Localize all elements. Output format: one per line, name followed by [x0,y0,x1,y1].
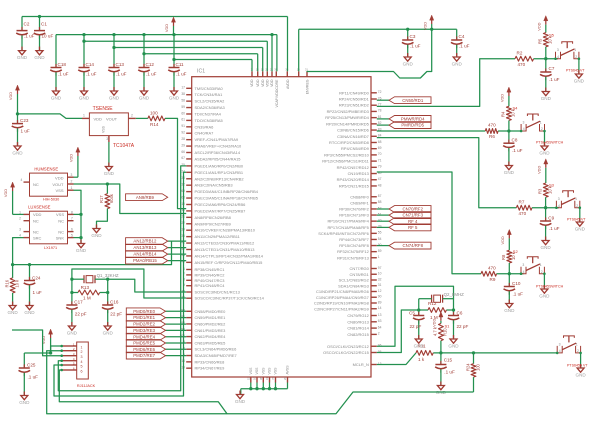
svg-text:PTS645 VT: PTS645 VT [566,69,585,73]
ground S1 [575,364,586,377]
svg-text:VDD: VDD [55,175,64,180]
svg-text:.1 uF: .1 uF [410,44,421,49]
svg-text:RP10/CN17/PMA9/RF4: RP10/CN17/PMA9/RF4 [327,219,369,224]
svg-text:1: 1 [81,345,83,349]
node CN74/RF8 [389,242,431,249]
svg-text:84: 84 [378,134,382,138]
wire Q1 to RC13 [108,279,187,292]
svg-text:10 uF: 10 uF [42,34,54,39]
wire RF4 tag [377,220,389,222]
svg-text:96: 96 [378,344,382,348]
svg-text:91: 91 [181,124,185,128]
ground S3 [575,218,586,231]
svg-text:.1 uF: .1 uF [549,226,560,231]
resistor R11 [416,343,433,362]
capacitor C13 [108,35,126,91]
svg-text:68: 68 [378,140,382,144]
svg-text:7: 7 [71,217,73,221]
svg-text:PMD1/RE1: PMD1/RE1 [133,315,155,320]
svg-text:NC: NC [58,219,64,224]
svg-text:1: 1 [574,48,576,52]
svg-text:90: 90 [378,243,382,247]
svg-text:GND: GND [51,95,62,100]
svg-text:C13: C13 [116,62,125,67]
svg-text:AN12/RB12: AN12/RB12 [133,239,157,244]
power VDD arrow top-left [164,17,176,35]
wire Q1 left net [70,278,73,305]
svg-text:GND: GND [34,55,45,60]
svg-text:4: 4 [558,204,560,208]
svg-text:R14: R14 [150,122,159,127]
svg-text:90: 90 [378,295,382,299]
ground VSS [235,391,246,404]
switch S3 [555,191,586,222]
svg-text:VSS: VSS [262,367,266,375]
svg-text:3: 3 [522,263,524,267]
wire PMD0 tag stub [166,310,187,312]
svg-text:VSS: VSS [249,367,253,375]
node CN71/RF3 [389,212,431,219]
node RF4 [389,218,431,225]
svg-text:GND: GND [109,95,120,100]
wire AVDD rail [299,28,457,72]
svg-text:VDD: VDD [500,94,505,102]
wire VDD to TSENSE [16,112,82,123]
resistor R3 [538,183,555,198]
node PMA0/RB15 [126,257,168,264]
wire LUXSENSE SRC net [11,238,172,267]
svg-text:CN63/PMD5/RE5: CN63/PMD5/RE5 [195,340,227,345]
svg-text:CN71/RF3: CN71/RF3 [402,213,423,218]
svg-text:CN61/PMD3/RE3: CN61/PMD3/RE3 [195,328,227,333]
svg-text:LX1971: LX1971 [44,246,57,250]
svg-text:CN78/RG1: CN78/RG1 [350,272,369,277]
svg-text:CN80/RG13: CN80/RG13 [347,319,369,324]
svg-text:100: 100 [475,363,480,371]
svg-text:R13: R13 [81,285,90,290]
wire VDD fan D [142,52,257,71]
svg-text:VDD: VDD [69,154,74,162]
wire RJ11 pin3 net [12,330,62,356]
svg-text:GND: GND [12,150,23,155]
svg-text:Q1_32KHZ: Q1_32KHZ [97,273,119,278]
svg-text:PTS645 VT: PTS645 VT [567,218,586,222]
power VDD arrow S5 [536,16,548,33]
svg-text:VSS: VSS [55,188,63,193]
svg-text:2: 2 [131,114,133,118]
svg-text:2: 2 [541,270,543,274]
svg-text:6: 6 [71,228,73,232]
svg-text:R4: R4 [501,111,506,117]
svg-text:GND: GND [139,95,150,100]
svg-text:.1 uF: .1 uF [444,369,455,374]
svg-text:AN14/RB14: AN14/RB14 [133,252,157,257]
svg-text:CN82/RG15: CN82/RG15 [347,332,369,337]
svg-text:GND: GND [169,95,180,100]
capacitor C16 [102,300,122,327]
wire PMD3 tag stub [166,329,187,331]
ground C7 [541,88,552,101]
wire AN15 tag stub [168,260,187,262]
capacitor C14 [78,35,96,91]
IC1 top power pins [250,67,309,107]
wire VDD to LUXSENSE [13,213,24,215]
svg-text:C1: C1 [41,22,47,27]
svg-text:RP3/CN55/PMCS2/RD10: RP3/CN55/PMCS2/RD10 [324,152,369,157]
svg-text:GND: GND [541,96,552,101]
switch S2 [520,257,564,289]
svg-text:AN14/CTPLS/RP14/CN32/PMA1/RB14: AN14/CTPLS/RP14/CN32/PMA1/RB14 [195,253,264,258]
svg-text:58: 58 [181,98,185,102]
svg-text:GND: GND [79,95,90,100]
svg-text:SDA1/CN84/RG3: SDA1/CN84/RG3 [338,283,369,288]
wire RD1 tag [377,99,389,101]
svg-text:VSS: VSS [255,367,259,375]
temperature sensor TSENSE TC1047A [82,106,136,149]
ground C15 [436,382,447,395]
svg-text:470: 470 [488,123,496,128]
node CN70/RF2 [389,206,431,213]
ground C12 [139,87,150,100]
ground C5 [414,335,425,348]
svg-text:89: 89 [378,300,382,304]
svg-text:VSS: VSS [56,212,64,217]
svg-text:TDO/CN38/RA5: TDO/CN38/RA5 [195,118,224,123]
svg-text:PMD6/RE6: PMD6/RE6 [133,347,155,352]
wire RF8 tag [377,245,389,247]
svg-text:TMS/CN33/RA0: TMS/CN33/RA0 [195,86,224,91]
svg-text:C1INC/RP26/PMA4/CN9/RG7: C1INC/RP26/PMA4/CN9/RG7 [316,295,369,300]
svg-text:PMD7/RE7: PMD7/RE7 [133,353,155,358]
wire VDD to HUMSENSE [74,176,78,178]
svg-text:C8: C8 [512,138,518,143]
svg-text:AN15/REF O/RP29/CN12/PMA0/RB15: AN15/REF O/RP29/CN12/PMA0/RB15 [195,260,264,265]
ground S4 [539,142,550,155]
ground C16 [103,322,114,335]
svg-text:100: 100 [150,110,158,115]
capacitor C11 [168,35,186,91]
svg-text:71: 71 [378,158,382,162]
svg-text:PMA6/VREF+/CN42/RA10: PMA6/VREF+/CN42/RA10 [195,144,243,149]
ground C1 [34,47,45,60]
svg-text:RP33/CN66/RE8: RP33/CN66/RE8 [195,359,226,364]
resistor R9 [481,265,497,282]
svg-text:NC: NC [33,219,39,224]
svg-text:RP20/CN14/PMRD/RD5: RP20/CN14/PMRD/RD5 [326,121,369,126]
node PMWR/RD4 [389,116,431,123]
svg-text:VDD: VDD [270,79,274,87]
svg-text:12: 12 [378,289,382,293]
svg-text:Q2_8MHZ: Q2_8MHZ [444,292,465,297]
svg-text:AN12/CTED2/CN30/PMA11/RB12: AN12/CTED2/CN30/PMA11/RB12 [195,241,255,246]
svg-text:VDD: VDD [261,79,265,87]
svg-text:66: 66 [181,150,185,154]
svg-text:97: 97 [378,266,382,270]
node PMD0/RE0 [126,308,165,315]
svg-text:C18: C18 [58,62,67,67]
svg-text:10 k: 10 k [14,279,19,288]
svg-text:22 pF: 22 pF [410,324,422,329]
svg-text:PMD0/RE0: PMD0/RE0 [133,309,155,314]
svg-text:.1 uF: .1 uF [86,72,97,77]
svg-text:VSS: VSS [268,367,272,375]
svg-text:48: 48 [378,183,382,187]
svg-text:VDD: VDD [500,236,505,244]
svg-text:SDA3/CN65/PMD7/RE7: SDA3/CN65/PMD7/RE7 [195,353,237,358]
svg-text:.1 uF: .1 uF [512,148,523,153]
svg-text:C3INB/CN15/RD6: C3INB/CN15/RD6 [337,128,370,133]
capacitor C2 [16,17,34,51]
svg-text:ASDA2/RP05/CN44/RA15: ASDA2/RP05/CN44/RA15 [195,156,242,161]
wire R9 junction [497,263,524,287]
ground TSENSE [104,163,115,176]
ground C17 [67,322,78,335]
wire RD4 tag [377,118,389,120]
svg-text:.1 uF: .1 uF [176,72,187,77]
resistor R2 [515,51,534,67]
wire LUXSENSE VSS [74,213,82,215]
svg-text:3: 3 [81,355,83,359]
svg-text:VSS: VSS [274,367,278,375]
svg-text:64: 64 [378,325,382,329]
power VDD arrow left [8,85,20,114]
svg-text:60: 60 [181,111,185,115]
capacitor C23 [12,118,30,146]
svg-text:NC: NC [33,229,39,234]
wire HUMSENSE VSS [74,190,83,243]
capacitor C6 [448,311,469,340]
power VDD arrow S4 [500,87,512,106]
svg-text:C2: C2 [24,22,30,27]
resistor R24 [465,353,480,392]
svg-text:PGEC3/AN5/C1INA/RP18/CN7/RB5: PGEC3/AN5/C1INA/RP18/CN7/RB5 [195,196,259,201]
node PMD2/RE2 [126,321,165,328]
svg-text:AVSS: AVSS [286,365,290,375]
resistor R16 [4,265,19,306]
svg-text:55: 55 [378,231,382,235]
svg-text:GND: GND [7,310,18,315]
ground C18 [51,87,62,100]
svg-text:NC: NC [58,229,64,234]
svg-text:C12: C12 [146,62,155,67]
svg-text:1 M: 1 M [430,315,438,320]
svg-text:PGEC1/AN1/RP1/CN3/RB1: PGEC1/AN1/RP1/CN3/RB1 [195,170,244,175]
svg-text:470: 470 [518,62,526,67]
wire RD2 to R2 [377,59,515,107]
wire TSENSE out [136,117,148,119]
svg-text:87: 87 [378,194,382,198]
svg-text:VDD: VDD [266,79,270,87]
svg-text:RP39/CN46/RC2: RP39/CN46/RC2 [195,272,225,277]
svg-text:PMWR/RD4: PMWR/RD4 [401,117,425,122]
ground C10 [504,300,515,313]
svg-text:RP42/CN57/RD12: RP42/CN57/RD12 [337,165,369,170]
svg-text:17: 17 [181,86,185,90]
svg-text:SCL2/CN35/RA2: SCL2/CN35/RA2 [195,99,225,104]
svg-text:4.7 k: 4.7 k [433,326,438,336]
wire R14 to RB7 [165,118,186,208]
capacitor C4 [451,34,470,57]
svg-text:GND: GND [104,171,115,176]
svg-text:GND: GND [539,293,550,298]
capacitor C9 [540,216,560,241]
ground C2 [17,47,28,60]
svg-text:4: 4 [523,270,525,274]
wire MCLR to R11 [377,341,557,365]
svg-text:5: 5 [71,234,73,238]
svg-text:RTCC/RP2/CN53/RD8: RTCC/RP2/CN53/RD8 [329,140,370,145]
ground C3 [403,53,414,66]
svg-text:GND: GND [235,399,246,404]
svg-text:R17: R17 [99,195,104,203]
svg-text:R8: R8 [501,254,506,260]
svg-text:CN69/RF1: CN69/RF1 [350,200,369,205]
resistor R10 [433,323,451,340]
svg-text:22 pF: 22 pF [457,324,469,329]
capacitor C17 [66,300,87,327]
wire VCAP rail [22,15,288,71]
wire RD6 to R6 [377,130,486,132]
capacitor C25 [19,353,39,396]
svg-text:C4: C4 [459,34,465,39]
wire S4 to ground [544,131,546,146]
capacitor C8 [503,138,523,166]
power VDD arrow RJ11 [41,329,53,353]
svg-text:C6: C6 [457,311,463,316]
ground R17 [91,225,102,238]
svg-text:72: 72 [378,90,382,94]
wire RJ11 pin5 PGC [54,172,186,396]
svg-text:5: 5 [81,364,83,368]
resistor R7 [516,200,532,216]
wire VDD fan B [82,40,267,72]
svg-text:PGED3/AN4/C1INB/RP28/CN6/RB4: PGED3/AN4/C1INB/RP28/CN6/RB4 [195,189,259,194]
capacitor C3 [402,29,421,57]
svg-text:3: 3 [557,48,559,52]
svg-text:29: 29 [181,143,185,147]
resistor R8 [501,249,518,263]
svg-text:GND: GND [575,372,586,377]
node AN9/RB9 [126,194,168,201]
wire ENVREG to VDD [307,29,432,78]
svg-text:GND: GND [17,55,28,60]
IC1 right pin labels and pins [314,90,382,367]
svg-text:AN9/RP9/CN27/RB9: AN9/RP9/CN27/RB9 [195,221,231,226]
wire R6 junction [498,121,521,144]
wire VDD fan C [112,46,262,71]
svg-text:R6: R6 [489,134,495,139]
svg-text:C11: C11 [176,62,185,67]
svg-text:C3INA/CN16/RD7: C3INA/CN16/RD7 [337,134,369,139]
svg-text:.1 uF: .1 uF [146,72,157,77]
svg-text:6: 6 [81,369,83,373]
svg-text:VDD: VDD [536,166,541,174]
svg-text:SOSCO/C3INC/RP37/T1CK/CN0/RC14: SOSCO/C3INC/RP37/T1CK/CN0/RC14 [195,296,265,301]
svg-text:40: 40 [378,218,382,222]
svg-text:GND: GND [24,310,35,315]
ground S2 [539,285,550,298]
svg-text:14: 14 [378,306,382,310]
svg-text:PMD3/RE3: PMD3/RE3 [133,328,155,333]
svg-text:MCLR_N: MCLR_N [353,362,369,367]
svg-text:VDD: VDD [536,22,541,30]
crystal Q2 [419,292,464,310]
svg-text:CN19/RD13: CN19/RD13 [348,171,370,176]
wire VDD fan E [172,58,252,71]
ground R16 [7,302,18,315]
connector RJ11 ICSP [60,342,95,388]
svg-text:13: 13 [378,313,382,317]
svg-text:C16: C16 [110,300,119,305]
ground C14 [79,87,90,100]
svg-text:RF 5: RF 5 [408,225,418,230]
svg-text:AN11/CN29/PMA12/RB11: AN11/CN29/PMA12/RB11 [195,234,240,239]
svg-text:RP16/CN71/RF3: RP16/CN71/RF3 [339,213,369,218]
svg-text:.1 uF: .1 uF [58,72,69,77]
node PMD5/RE5 [126,340,165,347]
svg-text:RP31/CN76/RF13: RP31/CN76/RF13 [337,255,370,260]
svg-text:4: 4 [21,178,23,182]
resistor R4 [501,106,519,121]
svg-text:GND: GND [76,248,87,253]
svg-text:RP22/CN52/PMBE/RD3: RP22/CN52/PMBE/RD3 [327,109,370,114]
switch S4 [520,114,564,145]
svg-text:IC1: IC1 [197,69,205,75]
svg-text:C7: C7 [549,66,555,71]
capacitor C5 [409,311,425,340]
svg-text:63: 63 [378,319,382,323]
wire S1 to ground [580,353,582,368]
svg-text:RP41/CN48/RC4: RP41/CN48/RC4 [195,283,226,288]
svg-text:SDA2/CN36/RA3: SDA2/CN36/RA3 [195,105,226,110]
svg-text:PTS6455 VT: PTS6455 VT [567,364,588,368]
svg-text:VDD: VDD [256,79,260,87]
node PMD4/RE4 [126,333,165,340]
svg-text:4: 4 [559,349,561,353]
svg-text:S5: S5 [549,33,555,38]
wire S3 to ground [579,208,581,222]
ground C25 [19,392,30,405]
node CN50/RD1 [389,97,431,104]
ground C8 [504,162,515,175]
svg-text:1: 1 [540,263,542,267]
wire RD7 to R7 [377,138,517,208]
svg-text:1 uF: 1 uF [33,290,42,295]
svg-text:52: 52 [378,206,382,210]
svg-text:RP34/CN67/RE9: RP34/CN67/RE9 [195,366,225,371]
svg-text:51: 51 [378,212,382,216]
svg-text:SCL1/CN83/RG2: SCL1/CN83/RG2 [339,278,369,283]
svg-text:C3: C3 [410,34,416,39]
svg-text:PMA0/RB15: PMA0/RB15 [133,258,157,263]
svg-text:C5: C5 [409,311,415,316]
wire LUXSENSE SNK [74,237,82,239]
svg-text:1 uF: 1 uF [21,129,30,134]
svg-text:1: 1 [378,255,380,259]
svg-text:VSS: VSS [102,125,106,133]
svg-text:2: 2 [81,350,83,354]
switch S1 [556,336,588,368]
svg-text:PGEC2/AN6/RP6/CN24/RB6: PGEC2/AN6/RP6/CN24/RB6 [195,202,247,207]
svg-text:1: 1 [83,114,85,118]
svg-text:RP11/CN49/RD0: RP11/CN49/RD0 [339,90,369,95]
wire PMD5 tag stub [166,342,187,344]
svg-text:PTS645SWITCH: PTS645SWITCH [536,141,564,145]
svg-text:HUMSENSE: HUMSENSE [34,166,58,171]
wire AN12 tag stub [168,240,187,242]
svg-text:2: 2 [71,180,73,184]
svg-text:C17: C17 [74,300,83,305]
